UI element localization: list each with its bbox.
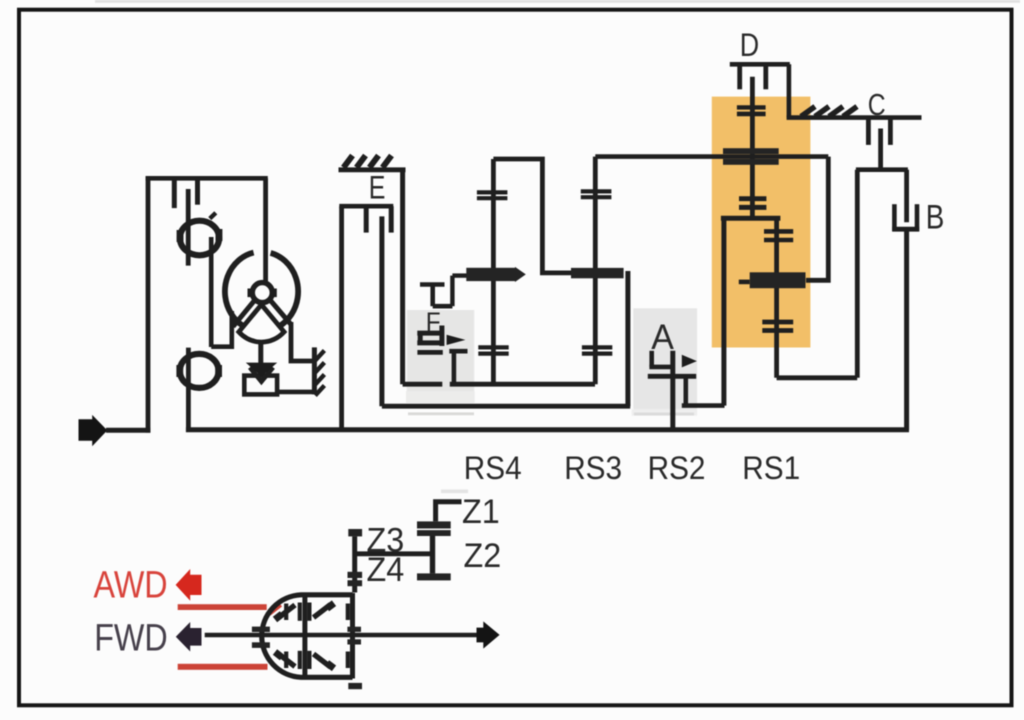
- svg-text:F: F: [426, 308, 441, 337]
- side gear faces: [298, 603, 302, 621]
- rail A to RS1: [682, 403, 725, 408]
- F tee bar: [420, 282, 445, 287]
- RS1 carrier mesh bars: [723, 148, 779, 154]
- output gears Z1-Z4: [348, 502, 462, 593]
- RS2 output thick bar: [750, 272, 806, 288]
- RS3 sun mark: [581, 189, 612, 193]
- wire input to converter: [106, 428, 150, 433]
- E prong 2: [389, 206, 394, 232]
- E drum right wall: [400, 170, 405, 384]
- svg-text:RS2: RS2: [648, 450, 706, 486]
- freewheel box: [244, 376, 277, 395]
- RS4 sun mark: [477, 190, 508, 194]
- F bracket left wall: [418, 333, 423, 343]
- RS1 ring wrap wire: [806, 157, 828, 281]
- lockup clutch prong left: [172, 178, 177, 208]
- svg-text:D: D: [740, 28, 759, 64]
- axle Z3 to Z2: [355, 551, 433, 556]
- svg-text:RS1: RS1: [742, 450, 800, 486]
- C prong 1: [866, 118, 871, 145]
- housing wall: [312, 347, 317, 394]
- E plate shaft: [379, 216, 384, 406]
- F stub to RS4 bar: [452, 273, 466, 277]
- svg-text:B: B: [926, 198, 945, 236]
- red streak in basket: [269, 605, 281, 614]
- A leg: [683, 376, 688, 405]
- A cup left wall: [649, 351, 654, 367]
- torque converter assembly: [79, 176, 325, 446]
- A cup right wall and shaft: [670, 351, 675, 431]
- wire top horizontal: [146, 176, 268, 181]
- turbine arm right: [270, 300, 290, 324]
- RS4 loop wire: [493, 159, 571, 273]
- rail from E plate: [382, 404, 630, 409]
- wire pump chord to bottom: [186, 348, 191, 430]
- Z1 hanger: [436, 502, 462, 522]
- FWD black arrow: [176, 622, 202, 652]
- RS4 shaft: [491, 159, 496, 384]
- Z3 top bar: [348, 529, 362, 536]
- bevel gear BL: [278, 654, 295, 667]
- bevel gear BR: [314, 654, 331, 667]
- clutch E: [339, 156, 631, 432]
- svg-text:E: E: [369, 171, 386, 207]
- E hub left wall: [339, 206, 344, 431]
- RS2 upper mark: [764, 229, 793, 234]
- Z2 gear bar: [417, 530, 451, 536]
- RS3 ring leg: [625, 271, 630, 406]
- RS3 shaft: [593, 157, 598, 385]
- clutch F: [417, 276, 467, 385]
- wire RS3 to RS1 carrier: [595, 154, 828, 159]
- gray highlight F: [407, 310, 474, 391]
- F step: [433, 304, 453, 309]
- bevel gear TL: [278, 605, 295, 618]
- Z4 mesh bars: [348, 572, 363, 578]
- D leg to ground line: [787, 64, 792, 117]
- svg-text:RS4: RS4: [464, 450, 522, 486]
- D prong 1: [737, 64, 742, 89]
- svg-text:Z4: Z4: [367, 551, 405, 589]
- top scan smudge: [95, 0, 1020, 3]
- turbine arm left: [233, 300, 255, 326]
- ground hatch E: [344, 156, 353, 168]
- E hub bar: [339, 204, 393, 209]
- svg-text:A: A: [651, 318, 674, 357]
- Z1 gear bar: [417, 521, 451, 528]
- gearset RS3: [571, 157, 828, 407]
- orange highlight RS1: [712, 97, 811, 348]
- clutch C and brake B: [856, 118, 919, 430]
- RS1 sun mark: [737, 105, 766, 109]
- Z2 shaft: [430, 536, 435, 573]
- gearset RS1 column: [721, 64, 922, 405]
- wire freewheel to housing: [275, 390, 316, 395]
- B shaft to bottom wire: [904, 230, 909, 430]
- D clutch bar: [730, 62, 790, 67]
- planet outer faces: [284, 604, 288, 621]
- Z3 shaft: [352, 536, 357, 592]
- gearset RS4: [466, 159, 571, 384]
- RS3 carrier bar: [571, 268, 624, 278]
- turbine input shaft: [263, 178, 268, 284]
- F bracket bottom bar: [417, 340, 444, 345]
- diff basket: [262, 595, 353, 678]
- housing hatch ticks: [315, 351, 324, 361]
- RS2 bracket bar: [721, 216, 781, 221]
- E prong 1: [364, 206, 369, 232]
- svg-text:Z2: Z2: [464, 537, 502, 575]
- bottom shaft wire: [186, 427, 909, 432]
- svg-text:C: C: [868, 88, 886, 122]
- small tick: [210, 213, 216, 219]
- ground line C: [787, 115, 922, 120]
- diff right wall shaft: [350, 593, 355, 679]
- clutch A: [648, 351, 725, 431]
- B cup: [892, 204, 897, 231]
- wire pump shaft vertical: [209, 237, 214, 347]
- pump pulley circle 1: [180, 221, 219, 256]
- F tee stem: [430, 285, 435, 307]
- RS2 bracket left leg: [721, 218, 726, 405]
- gray highlight A: [633, 308, 697, 409]
- C drum left wall: [855, 170, 860, 378]
- wire main shaft bottom: [186, 427, 909, 432]
- freewheel triangle: [246, 363, 277, 377]
- diff bottom bar: [348, 683, 362, 689]
- ground line E: [339, 167, 406, 172]
- D prong 2: [763, 64, 768, 89]
- ground hatch C: [801, 107, 815, 117]
- A cup bottom: [649, 365, 675, 370]
- freewheel chevron: [250, 367, 273, 381]
- wire RS2 sun to C drum: [777, 375, 858, 380]
- highlight boxes: [406, 97, 810, 494]
- A bar: [648, 374, 696, 379]
- output arrow right: [477, 621, 500, 648]
- svg-text:Z1: Z1: [462, 493, 500, 531]
- wire pump link corner: [211, 311, 232, 347]
- axle line FWD through diff: [205, 633, 478, 637]
- differential and outputs: [176, 569, 500, 689]
- svg-text:RS3: RS3: [564, 450, 622, 486]
- pump shell leg right: [291, 322, 314, 361]
- axle mesh marks left: [252, 627, 270, 632]
- lockup clutch prong right: [195, 178, 200, 204]
- F lower bar right: [449, 349, 467, 354]
- C drum bar: [856, 167, 908, 172]
- rail from E drum: [403, 382, 443, 387]
- RS3 lower mark: [582, 345, 612, 349]
- RS4 carrier bar with arrow: [466, 268, 516, 281]
- RS2 lower mark: [762, 320, 793, 325]
- svg-text:AWD: AWD: [94, 564, 168, 606]
- pump circle 2: [180, 354, 219, 388]
- C drum right wall into B: [904, 170, 909, 223]
- wire left vertical: [146, 176, 151, 432]
- RS1 mid mark: [739, 196, 766, 201]
- svg-text:FWD: FWD: [94, 617, 168, 659]
- axle mesh marks right: [347, 627, 361, 632]
- AWD red arrow: [176, 569, 202, 601]
- RS2 sun shaft: [774, 218, 779, 378]
- stator wedge: [239, 305, 284, 343]
- bevel gear TR: [314, 605, 331, 618]
- input arrow: [79, 415, 108, 446]
- F riser: [450, 276, 454, 307]
- red drive line 2: [178, 664, 268, 670]
- diff divider: [302, 595, 307, 678]
- F bracket top bar: [417, 331, 444, 336]
- A arrow: [682, 355, 697, 368]
- F plate prong: [439, 326, 444, 347]
- F leg: [452, 351, 457, 384]
- stator shaft: [258, 342, 263, 365]
- Z2 bottom bar: [417, 573, 451, 580]
- RS4 lower mark: [478, 345, 508, 349]
- F lower bar left: [417, 350, 442, 355]
- C plate shaft: [878, 129, 883, 170]
- red drive line 1: [178, 604, 267, 610]
- C prong 2: [888, 118, 893, 145]
- D plate shaft RS1 sun shaft: [750, 77, 755, 218]
- turbine hub: [252, 283, 272, 303]
- converter shell ring: [225, 253, 298, 332]
- lockup clutch plate shaft: [186, 189, 191, 266]
- F arrow: [447, 335, 466, 345]
